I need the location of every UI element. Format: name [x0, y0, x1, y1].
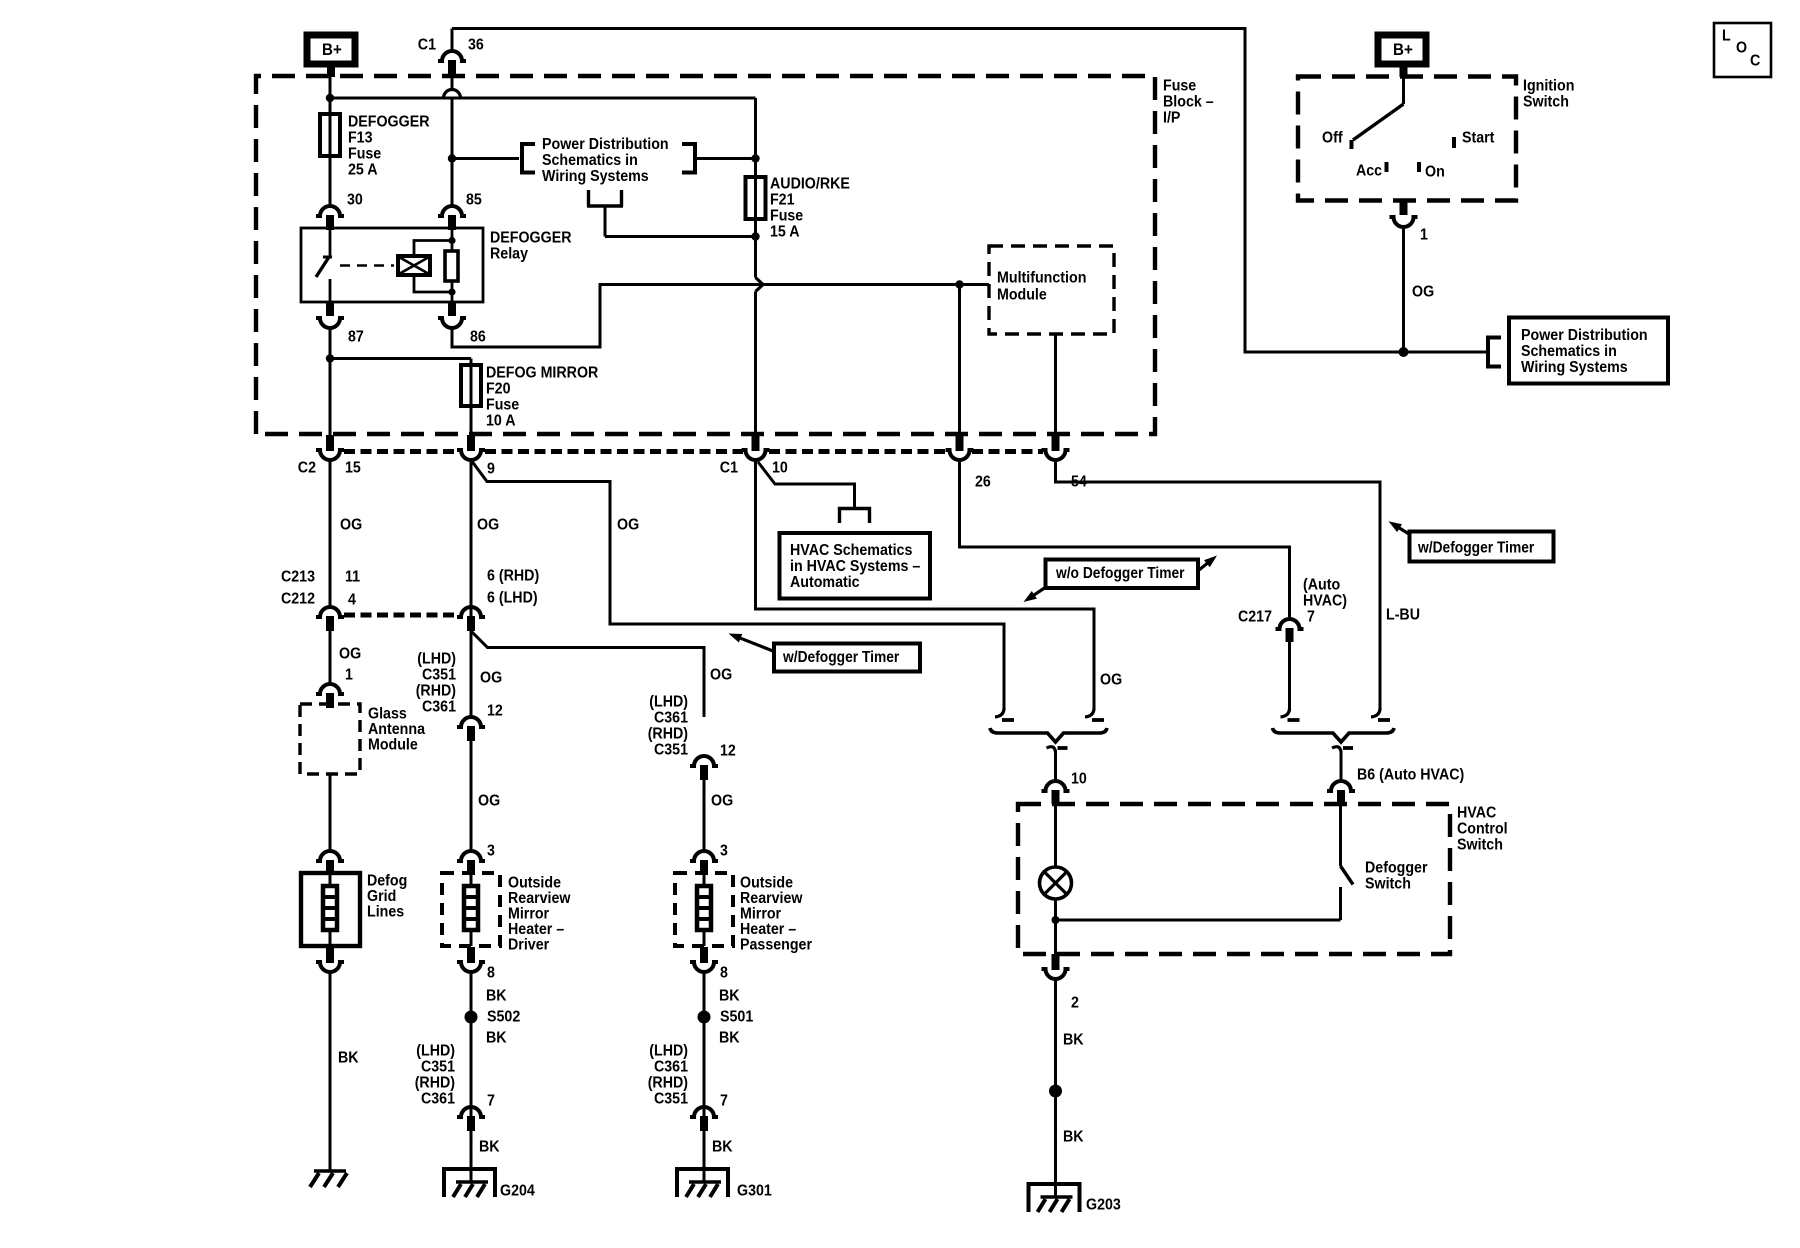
svg-text:G204: G204 [500, 1183, 535, 1200]
label: G203 [1086, 1197, 1121, 1214]
junction dot: F21 wire at power dist ref [751, 154, 759, 162]
label: 1 (glass antenna) [345, 667, 353, 684]
defog grid element bar [323, 873, 337, 946]
callout: w/Defogger Timer (center) [729, 634, 921, 672]
svg-text:BK: BK [719, 1030, 740, 1047]
label: pin 86 [470, 329, 486, 346]
relay internal dashed link [340, 264, 394, 267]
label: Multifunction Module [997, 270, 1086, 304]
svg-text:BK: BK [712, 1139, 733, 1156]
mirror heater element passenger [697, 873, 711, 946]
svg-text:(RHD): (RHD) [648, 1075, 688, 1092]
svg-text:AUDIO/RKE: AUDIO/RKE [770, 176, 850, 193]
wire: defog grid to ground (BK) [329, 972, 332, 1171]
label: B6 (Auto HVAC) [1357, 767, 1464, 784]
svg-text:OG: OG [340, 517, 362, 534]
svg-text:C213: C213 [281, 569, 315, 586]
wire: connector 26 to C217 [960, 460, 1290, 619]
svg-text:7: 7 [1307, 609, 1315, 626]
junction dot: relay coil top [448, 237, 455, 244]
svg-text:10: 10 [1071, 771, 1087, 788]
svg-text:30: 30 [347, 192, 363, 209]
label: OG (driver col upper) [477, 517, 499, 534]
svg-text:C351: C351 [654, 742, 688, 759]
svg-text:Fuse: Fuse [486, 397, 519, 414]
label: 12 (driver) [487, 703, 503, 720]
label: 10 [772, 460, 788, 477]
label: C1 (connector 10) [720, 460, 738, 477]
svg-text:Module: Module [997, 287, 1047, 304]
svg-text:G203: G203 [1086, 1197, 1121, 1214]
svg-text:7: 7 [487, 1093, 495, 1110]
defogger switch contact [1341, 804, 1354, 920]
label: (Auto HVAC) 7 [1303, 577, 1347, 626]
ground G301 [677, 1169, 728, 1197]
svg-text:C361: C361 [421, 1091, 455, 1108]
label stack: (LHD) C361 (RHD) C351 (passenger lower) [648, 1043, 688, 1108]
svg-text:Module: Module [368, 737, 418, 754]
svg-text:Fuse: Fuse [1163, 78, 1196, 95]
svg-text:BK: BK [479, 1139, 500, 1156]
svg-text:Switch: Switch [1365, 876, 1411, 893]
svg-text:Power Distribution: Power Distribution [1521, 327, 1648, 344]
label: BK (driver 1) [486, 988, 507, 1005]
bracket: HVAC schematics ref feed [840, 509, 870, 524]
svg-text:C: C [1750, 53, 1761, 70]
label: On + terminal tick [1419, 162, 1445, 181]
label: 6 (RHD) [487, 568, 539, 585]
label: DEFOGGER F13 Fuse 25 A [348, 114, 430, 179]
svg-text:OG: OG [617, 517, 639, 534]
svg-text:(RHD): (RHD) [415, 1075, 455, 1092]
label: G301 [737, 1183, 772, 1200]
label: BK (driver 3) [479, 1139, 500, 1156]
svg-text:OG: OG [1100, 672, 1122, 689]
svg-text:B+: B+ [322, 40, 342, 59]
svg-text:C351: C351 [421, 1059, 455, 1076]
svg-text:Heater –: Heater – [740, 921, 796, 938]
connector driver 7 [457, 1107, 485, 1131]
wire: switch return rail [1056, 919, 1341, 922]
label: BK (HVAC 1) [1063, 1032, 1084, 1049]
svg-text:On: On [1425, 164, 1445, 181]
LOC legend box [1714, 23, 1771, 77]
brace: options join at HVAC pin B6 [1273, 728, 1395, 742]
wire: driver 12 to mirror heater [470, 741, 473, 851]
svg-text:OG: OG [710, 667, 732, 684]
svg-text:w/Defogger Timer: w/Defogger Timer [782, 649, 899, 666]
wire: connector 10 diagonal to HVAC schematics ref [758, 462, 855, 509]
label: OG (x1094 wire) [1100, 672, 1122, 689]
svg-text:S502: S502 [487, 1009, 520, 1026]
ignition switch contact [1352, 77, 1404, 150]
svg-text:BK: BK [486, 988, 507, 1005]
hook: wire end at brace (x1380) [1371, 708, 1390, 720]
svg-text:Wiring Systems: Wiring Systems [1521, 359, 1628, 376]
brace: options join at HVAC pin 10 [990, 728, 1107, 742]
label: BK (passenger 1) [719, 988, 740, 1005]
label: HVAC Control Switch [1457, 805, 1508, 854]
label: 54 [1071, 474, 1087, 491]
svg-text:C1: C1 [418, 37, 436, 54]
wire: connector 10 branch to HVAC switch [756, 460, 1095, 711]
wire: C217 to brace [1288, 642, 1291, 711]
connector row dotted line C1/C2 [344, 449, 1043, 454]
fuse F21 AUDIO/RKE 15A [746, 160, 766, 278]
wire: indicator to junction and connector 2 [1054, 899, 1057, 954]
svg-text:in HVAC Systems –: in HVAC Systems – [790, 558, 920, 575]
fuse F13 DEFOGGER 25A [320, 101, 340, 206]
svg-text:BK: BK [1063, 1129, 1084, 1146]
connector HVAC pin 2 [1042, 954, 1070, 979]
wire: HVAC switch to ground G203 [1054, 978, 1057, 1186]
reference: Power Distribution Schematics in Wiring Systems (right) [1488, 318, 1668, 384]
wire: feed rail to AUDIO/RKE fuse [334, 98, 756, 177]
indicator lamp (circle-X) [1040, 867, 1072, 899]
connector pin 26 [946, 435, 974, 460]
label: 8 (passenger) [720, 965, 728, 982]
svg-text:Rearview: Rearview [508, 890, 571, 907]
svg-text:Lines: Lines [367, 904, 404, 921]
connector HVAC pin B6 [1327, 781, 1355, 804]
junction dot: BK splice [1049, 1085, 1062, 1098]
svg-text:7: 7 [720, 1093, 728, 1110]
wire: B+ to junction [329, 76, 332, 99]
HVAC control switch dashed box [1018, 804, 1450, 954]
svg-text:C361: C361 [654, 1059, 688, 1076]
outside rearview mirror heater driver box [442, 873, 500, 946]
fuse block I/P dashed box [256, 76, 1155, 434]
svg-text:(LHD): (LHD) [416, 1043, 455, 1060]
connector driver 12 [457, 717, 485, 741]
svg-text:Grid: Grid [367, 888, 396, 905]
svg-text:Ignition: Ignition [1523, 78, 1574, 95]
svg-text:Schematics in: Schematics in [1521, 343, 1617, 360]
label: C213 / 11 [281, 569, 360, 586]
connector defog grid ground side [316, 947, 344, 972]
svg-text:Automatic: Automatic [790, 574, 860, 591]
svg-text:OG: OG [1412, 284, 1434, 301]
label stack: (LHD) C351 (RHD) C361 (driver lower) [415, 1043, 455, 1108]
wire: module feed to connector 26 [958, 285, 961, 438]
svg-text:Acc: Acc [1356, 163, 1382, 180]
label: Glass Antenna Module [368, 706, 425, 754]
label: AUDIO/RKE F21 Fuse 15 A [770, 176, 850, 241]
ground G203 [1029, 1184, 1080, 1212]
connector pin 87 [316, 302, 344, 328]
svg-text:HVAC Schematics: HVAC Schematics [790, 542, 912, 559]
wire: connector 9 branch to HVAC switch (w/defogger timer) [471, 460, 1004, 711]
hook: wire end at brace (x1094) [1085, 708, 1104, 720]
wire: connector 54 to brace (L-BU) [1056, 460, 1381, 711]
wire: connector 9 to driver mirror column [470, 460, 473, 717]
wire: branch to fuse F20 [330, 357, 471, 360]
wire: branch to passenger column [471, 631, 704, 717]
label: Off [1322, 130, 1343, 147]
svg-text:Block –: Block – [1163, 94, 1214, 111]
svg-text:1: 1 [345, 667, 353, 684]
label: 8 (driver) [487, 965, 495, 982]
label: DEFOG MIRROR F20 Fuse 10 A [486, 365, 599, 430]
svg-text:Defog: Defog [367, 873, 407, 890]
callout: w/o Defogger Timer [1024, 556, 1218, 603]
hop: vertical C1-36 wire over feed rail [444, 90, 461, 98]
label: OG (passenger upper) [710, 667, 732, 684]
svg-text:4: 4 [348, 592, 356, 609]
reference: Power Distribution Schematics in Wiring Systems (fuse block) [452, 136, 756, 185]
label: BK (HVAC 2) [1063, 1129, 1084, 1146]
relay switch contact [316, 228, 332, 302]
svg-text:DEFOG MIRROR: DEFOG MIRROR [486, 365, 599, 382]
wire: connector 15 to C212 [329, 460, 332, 607]
relay internal wiring [414, 228, 452, 302]
label: Acc + terminal tick [1356, 162, 1387, 180]
fuse F20 DEFOG MIRROR 10A [461, 359, 481, 438]
svg-text:F21: F21 [770, 192, 795, 209]
label: Outside Rearview Mirror Heater - Passenger [740, 875, 812, 954]
label: G204 [500, 1183, 535, 1200]
connector passenger 3 [690, 851, 718, 875]
svg-text:B+: B+ [1393, 40, 1413, 59]
dotted line C212/C213 [344, 613, 458, 618]
svg-text:Power Distribution: Power Distribution [542, 136, 669, 153]
connector pin 85 [438, 206, 466, 230]
label: Start + terminal tick [1454, 130, 1495, 148]
svg-text:Start: Start [1462, 130, 1495, 147]
label: Outside Rearview Mirror Heater - Driver [508, 875, 571, 954]
junction dot: F21 wire at bracket feed [751, 232, 759, 240]
B+ power symbol (fuse block feed) [307, 35, 355, 77]
label: Fuse Block - I/P [1163, 78, 1214, 127]
label: S502 [487, 1009, 520, 1026]
label: C212 / 4 [281, 591, 356, 609]
wire: F21 to connector C1-10 [754, 292, 757, 438]
svg-text:C1: C1 [720, 460, 738, 477]
svg-text:OG: OG [339, 646, 361, 663]
svg-text:12: 12 [720, 743, 736, 760]
label: pin 87 [348, 329, 364, 346]
label: BK (passenger 3) [712, 1139, 733, 1156]
wire: passenger 12 to mirror heater [703, 780, 706, 851]
svg-text:C351: C351 [654, 1091, 688, 1108]
svg-text:Control: Control [1457, 821, 1508, 838]
connector glass antenna pin 1 [316, 684, 344, 708]
svg-text:S501: S501 [720, 1009, 753, 1026]
label: BK (passenger 2) [719, 1030, 740, 1047]
connector driver 8 [457, 947, 485, 972]
svg-text:DEFOGGER: DEFOGGER [490, 230, 572, 247]
svg-text:L: L [1722, 28, 1731, 45]
label: OG (driver mid) [480, 670, 502, 687]
svg-text:(LHD): (LHD) [417, 651, 456, 668]
splice S502 [465, 1011, 478, 1024]
svg-text:Off: Off [1322, 130, 1343, 147]
connector driver 3 [457, 851, 485, 875]
svg-text:B6 (Auto HVAC): B6 (Auto HVAC) [1357, 767, 1464, 784]
label stack: (LHD) C351 (RHD) C361 (driver upper) [416, 651, 456, 716]
svg-text:C361: C361 [422, 699, 456, 716]
label: 15 [345, 460, 361, 477]
label: OG (left col upper) [340, 517, 362, 534]
svg-text:I/P: I/P [1163, 110, 1181, 127]
svg-text:BK: BK [719, 988, 740, 1005]
relay coil [398, 256, 430, 275]
svg-text:85: 85 [466, 192, 482, 209]
svg-text:3: 3 [487, 843, 495, 860]
wire: ignition switch to junction (OG) [1402, 227, 1405, 352]
label: C217 [1238, 609, 1272, 626]
svg-text:O: O [1736, 40, 1747, 57]
connector driver 6 [457, 607, 485, 631]
wire: C212 to glass antenna module [329, 631, 332, 684]
wire: pin 87 to connector C2-15 [329, 328, 332, 437]
svg-text:BK: BK [486, 1030, 507, 1047]
wire: HVAC pin 10 to indicator [1054, 804, 1057, 867]
label: OG (ignition) [1412, 284, 1434, 301]
B+ power symbol (ignition feed) [1378, 35, 1426, 77]
wire: under-bracket of power dist ref to F21 wire [587, 190, 756, 237]
junction dot: tap to power distribution ref [448, 154, 456, 162]
svg-text:Fuse: Fuse [348, 146, 381, 163]
connector pin 30 [316, 206, 344, 230]
connector C1 pin 10 [742, 435, 770, 460]
svg-text:Relay: Relay [490, 246, 528, 263]
svg-text:Switch: Switch [1523, 94, 1569, 111]
svg-text:F20: F20 [486, 381, 511, 398]
junction dot: ignition OG at rail [1399, 347, 1409, 357]
svg-text:36: 36 [468, 37, 484, 54]
ignition switch dashed box [1298, 77, 1516, 201]
label: 3 (driver) [487, 843, 495, 860]
svg-text:Outside: Outside [740, 875, 793, 892]
svg-text:1: 1 [1420, 227, 1428, 244]
label: BK (left col) [338, 1050, 359, 1067]
svg-text:87: 87 [348, 329, 364, 346]
svg-text:Glass: Glass [368, 706, 407, 723]
svg-text:Antenna: Antenna [368, 721, 425, 738]
svg-text:10: 10 [772, 460, 788, 477]
label: Defog Grid Lines [367, 873, 407, 921]
label: 10 (HVAC) [1071, 771, 1087, 788]
junction dot: lamp/switch node [1052, 916, 1060, 924]
label: Defogger Switch [1365, 860, 1428, 893]
reference box: HVAC Schematics in HVAC Systems - Automatic [780, 533, 931, 599]
connector passenger 12 [690, 756, 718, 780]
label: 2 (HVAC) [1071, 995, 1079, 1012]
svg-text:OG: OG [480, 670, 502, 687]
label: 12 (passenger) [720, 743, 736, 760]
label stack: (LHD) C361 (RHD) C351 (passenger upper) [648, 694, 688, 759]
svg-text:26: 26 [975, 474, 991, 491]
svg-text:OG: OG [478, 793, 500, 810]
svg-text:Heater –: Heater – [508, 921, 564, 938]
svg-text:10 A: 10 A [486, 413, 516, 430]
label: C1 (top) [418, 37, 436, 54]
svg-text:3: 3 [720, 843, 728, 860]
svg-text:BK: BK [338, 1050, 359, 1067]
junction dot: F20 branch [326, 354, 334, 362]
junction dot: B+ feed split [326, 94, 334, 102]
wire: battery feed top rail from C1-36 to ignition area [452, 29, 1486, 353]
svg-text:Driver: Driver [508, 937, 549, 954]
label: 6 (LHD) [487, 590, 538, 607]
svg-text:Passenger: Passenger [740, 937, 812, 954]
svg-text:Wiring Systems: Wiring Systems [542, 168, 649, 185]
label: L-BU [1386, 607, 1420, 624]
connector passenger 8 [690, 947, 718, 972]
svg-text:w/Defogger Timer: w/Defogger Timer [1417, 539, 1534, 556]
connector defog grid feed [316, 851, 344, 875]
svg-text:6 (RHD): 6 (RHD) [487, 568, 539, 585]
svg-text:OG: OG [711, 793, 733, 810]
label: pin 30 [347, 192, 363, 209]
svg-text:Defogger: Defogger [1365, 860, 1428, 877]
svg-text:12: 12 [487, 703, 503, 720]
connector ignition pin 1 [1390, 200, 1418, 227]
svg-text:(RHD): (RHD) [648, 726, 688, 743]
junction dot: module feed split to pin 26 [955, 280, 963, 288]
defog grid lines box [301, 873, 360, 946]
connector pin 54 [1042, 435, 1070, 460]
wire: pin 86 to multifunction module [452, 285, 989, 348]
connector HVAC pin 10 [1042, 781, 1070, 804]
label: 36 [468, 37, 484, 54]
label: 7 (driver) [487, 1093, 495, 1110]
svg-text:86: 86 [470, 329, 486, 346]
connector C212/C213 pin 4-11 [316, 607, 344, 631]
hop: F21 wire chevron over module wire [756, 278, 764, 292]
label: 9 [487, 461, 495, 478]
svg-text:HVAC): HVAC) [1303, 593, 1347, 610]
svg-text:w/o Defogger Timer: w/o Defogger Timer [1055, 565, 1184, 582]
svg-text:C2: C2 [298, 460, 316, 477]
connector pin 86 [438, 302, 466, 328]
connector C217 pin 7 [1276, 619, 1304, 642]
svg-text:C351: C351 [422, 667, 456, 684]
svg-text:Switch: Switch [1457, 837, 1503, 854]
wire: module to connector 54 [1054, 334, 1057, 437]
svg-text:Mirror: Mirror [740, 906, 781, 923]
svg-text:15: 15 [345, 460, 361, 477]
outside rearview mirror heater passenger box [675, 873, 733, 946]
svg-text:C361: C361 [654, 710, 688, 727]
svg-text:(LHD): (LHD) [649, 1043, 688, 1060]
wire: pin 36 to relay pin 85 [451, 98, 454, 206]
svg-text:Outside: Outside [508, 875, 561, 892]
label: 1 (ignition) [1420, 227, 1428, 244]
svg-text:(LHD): (LHD) [649, 694, 688, 711]
glass antenna module box [300, 704, 360, 774]
wire: mirror passenger to ground [703, 972, 706, 1171]
label: 26 [975, 474, 991, 491]
svg-text:15 A: 15 A [770, 224, 800, 241]
label: OG (left col) [339, 646, 361, 663]
label: OG (driver lower) [478, 793, 500, 810]
svg-text:F13: F13 [348, 130, 373, 147]
svg-text:(Auto: (Auto [1303, 577, 1340, 594]
junction dot: relay coil bottom [448, 288, 455, 295]
svg-text:Rearview: Rearview [740, 890, 803, 907]
svg-text:BK: BK [1063, 1032, 1084, 1049]
label: OG (passenger lower) [711, 793, 733, 810]
svg-text:OG: OG [477, 517, 499, 534]
ground (defog grid) [310, 1171, 347, 1187]
svg-text:Multifunction: Multifunction [997, 270, 1086, 287]
label: C2 (connector 15) [298, 460, 316, 477]
splice S501 [698, 1011, 711, 1024]
wire: glass antenna module to defog grid [329, 774, 332, 851]
svg-text:DEFOGGER: DEFOGGER [348, 114, 430, 131]
